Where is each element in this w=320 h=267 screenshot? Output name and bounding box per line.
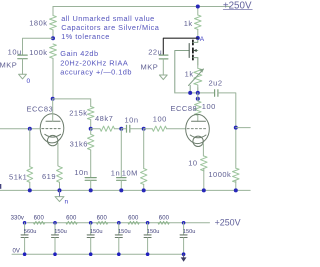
capacitor 10n shunt xyxy=(74,168,96,191)
ground 0 xyxy=(19,74,31,85)
node junction dot rail 10n xyxy=(89,188,93,192)
wire 2u2 to output column xyxy=(218,93,236,168)
wire left drop from top rail xyxy=(52,7,54,16)
resistor 1k top xyxy=(184,7,201,39)
capacitor 150u #3 xyxy=(87,223,102,254)
capacitor 22u MKP xyxy=(141,47,168,71)
resistor 600 #5 xyxy=(158,215,170,224)
wire PSU top rail xyxy=(28,222,210,224)
wiper arrow xyxy=(189,69,204,86)
svg-text:1000k: 1000k xyxy=(208,170,231,179)
resistor 600 #3 xyxy=(97,215,108,224)
svg-text:600: 600 xyxy=(159,215,170,221)
resistor 1000k xyxy=(208,168,239,190)
capacitor 150u #6 xyxy=(180,223,195,254)
drain lead xyxy=(193,40,198,42)
svg-text:MKP: MKP xyxy=(0,61,17,70)
node junction dot source/anode xyxy=(196,91,200,95)
svg-text:600: 600 xyxy=(34,215,45,221)
node junction dot (180k/100k/10u) xyxy=(51,36,55,40)
resistor 48k7 xyxy=(91,114,122,132)
svg-text:48k7: 48k7 xyxy=(95,114,113,123)
resistor 600 #2 xyxy=(66,215,77,224)
resistor 31k6 xyxy=(70,129,94,178)
note text block 2 xyxy=(60,49,132,77)
wire gyrator node xyxy=(175,92,215,94)
heater bump xyxy=(193,136,203,146)
svg-text:10M: 10M xyxy=(122,168,138,177)
mosfet Q1 xyxy=(175,40,198,93)
node junction dot rail 1n xyxy=(119,188,123,192)
plate bar xyxy=(192,120,206,122)
svg-text:600: 600 xyxy=(66,215,77,221)
svg-text:10: 10 xyxy=(188,158,197,167)
resistor 215k xyxy=(69,107,94,129)
grid dashes xyxy=(42,128,62,130)
heater bump xyxy=(48,135,58,145)
node junction dot output xyxy=(234,126,238,130)
svg-text:10n: 10n xyxy=(74,168,88,177)
capacitor 560u #1 xyxy=(21,223,36,254)
connector stub left edge xyxy=(0,184,1,189)
gate lead xyxy=(175,51,189,93)
svg-text:600: 600 xyxy=(128,215,139,221)
capacitor 10u MKP xyxy=(0,48,27,70)
wire 10u to ground xyxy=(22,59,24,74)
node A xyxy=(196,36,205,43)
wire anode ECC83 to 215k xyxy=(53,99,91,107)
node junction dot input xyxy=(28,127,32,131)
node junction dot (100k/anode/215k wire) xyxy=(51,97,55,101)
svg-text:150u: 150u xyxy=(147,229,160,235)
resistor 600 #1 xyxy=(34,215,45,224)
wire PSU bottom rail xyxy=(12,253,184,255)
svg-text:51k1: 51k1 xyxy=(9,172,27,181)
wire to 100 anode resistor xyxy=(197,93,199,101)
svg-text:2u2: 2u2 xyxy=(209,79,223,88)
node junction dot rail 619 xyxy=(58,188,62,192)
capacitor 150u #5 xyxy=(144,223,159,254)
wire mid ground rail xyxy=(0,189,250,191)
svg-text:20Hz-20KHz RIAA: 20Hz-20KHz RIAA xyxy=(60,58,128,67)
svg-text:all Unmarked small value: all Unmarked small value xyxy=(61,14,155,23)
plate bar xyxy=(46,120,60,122)
node junction dot rail 10 xyxy=(202,188,206,192)
cathode lead xyxy=(58,143,60,167)
capacitor 10n series xyxy=(121,116,143,133)
resistor 10 cathode ECC88 xyxy=(188,156,207,190)
node junction dot top rail / 1k xyxy=(196,5,200,9)
svg-text:619: 619 xyxy=(42,172,56,181)
svg-text:100: 100 xyxy=(153,114,167,123)
cathode arc xyxy=(45,134,61,137)
svg-text:560u: 560u xyxy=(24,229,37,235)
svg-text:1n: 1n xyxy=(111,168,120,177)
svg-text:215k: 215k xyxy=(69,108,87,117)
resistor 10M xyxy=(122,129,147,191)
note text block 1 xyxy=(61,14,160,41)
arrow into channel xyxy=(193,49,196,52)
wire node A to 22u (black) xyxy=(163,38,198,55)
svg-text:10u: 10u xyxy=(8,48,22,57)
node junction dot wiper xyxy=(188,91,192,95)
svg-text:180k: 180k xyxy=(29,19,47,28)
wire 22u to ground xyxy=(162,59,164,75)
trimmer 1k xyxy=(185,58,204,93)
resistor 100k xyxy=(29,44,56,97)
svg-text:0: 0 xyxy=(27,78,31,85)
PSU bottom rail dots xyxy=(23,252,27,256)
svg-text:150u: 150u xyxy=(183,229,196,235)
svg-text:1k: 1k xyxy=(184,19,193,28)
capacitor 150u #2 xyxy=(52,223,67,254)
resistor 100 grid stopper ECC88 xyxy=(144,114,186,131)
capacitor 1n xyxy=(111,129,126,191)
cathode lead xyxy=(202,144,204,156)
svg-text:150u: 150u xyxy=(90,229,103,235)
svg-text:330v: 330v xyxy=(11,215,24,221)
svg-text:+250V: +250V xyxy=(215,217,241,227)
wire output stub xyxy=(236,127,250,129)
resistor 619 xyxy=(42,167,62,191)
svg-text:1k: 1k xyxy=(185,70,194,79)
svg-text:22u: 22u xyxy=(148,47,162,56)
svg-text:150u: 150u xyxy=(118,229,131,235)
node junction dot 215k/48k7/31k6 xyxy=(89,127,93,131)
svg-text:31k6: 31k6 xyxy=(70,139,88,148)
svg-text:MKP: MKP xyxy=(141,63,159,72)
node junction dot 10n/10M/100 xyxy=(142,127,146,131)
capacitor 150u #4 xyxy=(115,223,130,254)
wire 51k1 top lead xyxy=(29,129,31,167)
node junction dot rail 1000k xyxy=(234,188,238,192)
resistor 180k xyxy=(29,16,56,39)
svg-text:ECC83: ECC83 xyxy=(27,104,54,113)
resistor 100 anode ECC88 xyxy=(195,101,216,121)
wire input grid ECC83 xyxy=(0,128,40,130)
svg-text:A: A xyxy=(200,36,205,43)
grid dashes xyxy=(187,128,207,130)
svg-text:100: 100 xyxy=(202,102,216,111)
svg-text:n: n xyxy=(65,199,69,206)
cathode arc xyxy=(190,135,206,138)
resistor 600 #4 xyxy=(128,215,139,224)
node junction dot rail 10M xyxy=(142,188,146,192)
PSU top rail dots xyxy=(23,221,27,225)
wire top +250V rail xyxy=(53,6,230,8)
node junction dot anode feed xyxy=(196,97,200,101)
triode ECC83 U1 xyxy=(27,99,64,167)
gate bar xyxy=(188,44,190,58)
resistor 51k1 xyxy=(9,167,33,191)
svg-text:ECC88: ECC88 xyxy=(171,104,198,113)
anode lead xyxy=(52,99,54,121)
svg-text:accuracy +/—0.1db: accuracy +/—0.1db xyxy=(60,67,132,76)
ground below 22u xyxy=(159,75,167,80)
svg-text:600: 600 xyxy=(97,215,108,221)
svg-text:10n: 10n xyxy=(125,116,139,125)
svg-text:100k: 100k xyxy=(29,48,47,57)
svg-text:1% tolerance: 1% tolerance xyxy=(61,32,110,41)
svg-text:Gain 42db: Gain 42db xyxy=(60,49,98,58)
ground PSU xyxy=(181,254,187,261)
source + body lead xyxy=(193,58,198,65)
channel bars xyxy=(192,40,194,44)
triode ECC88 U2 xyxy=(171,104,210,156)
wire to 10u cap xyxy=(23,38,54,55)
ground n xyxy=(55,190,69,205)
label +250V (top right) xyxy=(223,0,252,11)
capacitor 2u2 xyxy=(209,79,223,97)
svg-text:Capacitors are Silver/Mica: Capacitors are Silver/Mica xyxy=(61,23,160,32)
node junction dot 48k7/10n/1n xyxy=(119,127,123,131)
svg-text:150u: 150u xyxy=(54,229,67,235)
node junction dot rail 51k1 xyxy=(28,188,32,192)
